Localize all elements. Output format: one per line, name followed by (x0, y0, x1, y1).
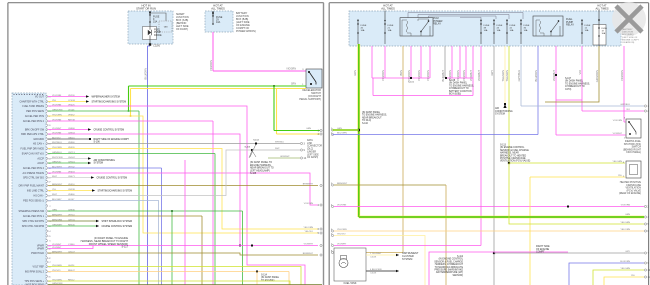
svg-text:IND RPM SGNL 2: IND RPM SGNL 2 (25, 271, 45, 274)
page2 left pin VIO/ORN 4 (331, 205, 333, 207)
wire YEL/GRN chartreuse vertical (508, 46, 510, 163)
wire GRN vertical drop at x274 (273, 86, 275, 131)
relay bus wires to fuses (408, 13, 523, 20)
svg-text:GRN: GRN (306, 128, 311, 130)
svg-text:WHT: WHT (52, 194, 58, 196)
svg-text:VE230: VE230 (68, 95, 75, 97)
svg-text:GRY: GRY (490, 70, 494, 76)
fuse 43 page2 (493, 23, 494, 24)
svg-text:VIO/WHT: VIO/WHT (52, 128, 62, 130)
SJB feed stub (149, 11, 151, 14)
svg-text:VIO/ORN: VIO/ORN (209, 60, 213, 71)
svg-text:GRN/ORN: GRN/ORN (52, 109, 63, 111)
svg-text:ENGINE HARNESS,: ENGINE HARNESS, (250, 164, 272, 167)
svg-text:AT BREAKOUT TO: AT BREAKOUT TO (565, 85, 585, 88)
svg-text:YEL/GRN: YEL/GRN (620, 222, 630, 224)
wire VIO relay pin down 1 (410, 46, 412, 78)
svg-text:(IN ENGINE CONTROL: (IN ENGINE CONTROL (439, 259, 464, 261)
svg-text:RE506: RE506 (68, 224, 75, 226)
svg-text:EVAP CAN VNT VLV: EVAP CAN VNT VLV (22, 153, 45, 156)
svg-text:VIO/ORN: VIO/ORN (426, 70, 430, 81)
svg-text:VO OUT: VO OUT (35, 96, 45, 99)
svg-text:TO DLC): TO DLC) (362, 120, 371, 122)
svg-text:CO610: CO610 (68, 100, 76, 102)
svg-text:PEDAL SUPPORT): PEDAL SUPPORT) (299, 98, 321, 101)
svg-text:DRV PNP FUEL MAINT: DRV PNP FUEL MAINT (19, 185, 45, 188)
svg-text:(IN DASH PANEL: (IN DASH PANEL (449, 82, 468, 85)
fuse F9 (SJB) (149, 14, 150, 15)
svg-text:10A: 10A (510, 29, 514, 32)
wire GRN decel branch vertical x128.5 (128, 86, 130, 111)
wire GRY long vertical S-112 (493, 46, 495, 285)
svg-text:10A: 10A (497, 29, 501, 32)
svg-text:C4048: C4048 (370, 257, 377, 259)
svg-text:DIODE: DIODE (154, 34, 162, 37)
fuse 21 page2 (384, 23, 385, 24)
svg-text:VOLT REF: VOLT REF (33, 266, 45, 269)
svg-text:(IN ENGINE CONTROL: (IN ENGINE CONTROL (500, 147, 525, 149)
svg-text:YEL/GRN: YEL/GRN (52, 279, 62, 281)
svg-text:C4048: C4048 (370, 273, 377, 275)
fuse F29 (BJB) (212, 15, 213, 16)
svg-text:GROUND: GROUND (33, 138, 44, 141)
svg-text:VIO/WHT: VIO/WHT (613, 133, 623, 135)
svg-text:AT BREAKOUT TO: AT BREAKOUT TO (449, 87, 469, 90)
svg-text:VIO/ORN: VIO/ORN (286, 69, 296, 71)
wire VIO long vertical x481 (480, 46, 482, 246)
svg-text:35: 35 (48, 276, 50, 278)
svg-text:PRESSURE (MAP)/INTAKE: PRESSURE (MAP)/INTAKE (434, 269, 463, 272)
svg-text:NEAR BREAKOUT TO: NEAR BREAKOUT TO (250, 167, 274, 170)
wire VIO long vertical x473 (472, 46, 474, 96)
svg-text:STEERING PRESS SW: STEERING PRESS SW (18, 210, 44, 213)
inertia fuel shutoff IFS switch box (626, 119, 641, 138)
svg-text:BRN: BRN (399, 70, 403, 76)
svg-text:VE966: VE966 (68, 142, 75, 144)
wire YEL bottom right corner (604, 277, 644, 285)
svg-text:A/C PRESS TRANS: A/C PRESS TRANS (23, 172, 45, 175)
svg-text:GRN: GRN (291, 84, 296, 86)
svg-text:VIO/ORN: VIO/ORN (456, 70, 460, 81)
svg-text:BLU/WHT: BLU/WHT (52, 166, 63, 168)
wire GRN decel pin 1 horizontal (273, 85, 275, 87)
svg-text:BRN/WHT: BRN/WHT (52, 251, 63, 253)
wire BRN tan long vertical (402, 46, 404, 252)
svg-text:BLU/ORN: BLU/ORN (144, 68, 148, 80)
fuse 12 page2 (581, 23, 582, 24)
wire BLU/ORN vertical from fuse (537, 46, 539, 135)
svg-text:ALL TIMES: ALL TIMES (211, 7, 225, 11)
svg-text:OF DASH): OF DASH) (176, 28, 188, 31)
splice S-110 note (358, 129, 360, 131)
svg-text:GRN/ORN: GRN/ORN (595, 70, 599, 82)
wire GRN to page edge pin 1 (274, 130, 320, 132)
svg-text:SENSOR): SENSOR) (453, 275, 464, 277)
wire VIO relay pin down 3 (429, 46, 431, 78)
svg-text:TO MANIFOLD ABSOLUTE: TO MANIFOLD ABSOLUTE (435, 266, 464, 269)
svg-text:VIO/ORN: VIO/ORN (52, 132, 62, 134)
svg-text:CH501: CH501 (68, 161, 76, 163)
fuel pump symbol (339, 259, 348, 268)
svg-text:10A: 10A (388, 29, 392, 32)
svg-text:WHT/ORN: WHT/ORN (52, 157, 63, 159)
PCM pin ticks top (14, 94, 15, 95)
svg-text:CRUISE CONTROL SYSTEM: CRUISE CONTROL SYSTEM (102, 226, 133, 228)
wire YEL to PCV pin 1 (530, 176, 625, 178)
svg-text:YEL/GRN: YEL/GRN (620, 268, 630, 270)
svg-text:YEL/VIO: YEL/VIO (304, 231, 313, 233)
svg-text:VIO/WHT: VIO/WHT (469, 70, 473, 82)
svg-text:GRY/BLU: GRY/BLU (620, 104, 630, 106)
wire VIO fuse21 down to splice bus (384, 46, 386, 78)
SJB tab sub-box (dashed) (159, 21, 172, 32)
BJB feed stub (212, 11, 214, 16)
wire YEL vertical drop at x276 (276, 89, 278, 135)
svg-text:BRN/WHT: BRN/WHT (52, 214, 63, 216)
svg-text:YEL/ORN: YEL/ORN (52, 147, 62, 149)
svg-text:(IN DASH PANEL: (IN DASH PANEL (362, 111, 381, 114)
fuel pump relay coil (539, 21, 540, 32)
svg-text:SENSOR & FUEL CHARGE: SENSOR & FUEL CHARGE (500, 149, 529, 152)
svg-text:(IN DASH PANEL TO: (IN DASH PANEL TO (250, 161, 272, 164)
svg-text:10A: 10A (524, 29, 528, 32)
svg-text:CE731: CE731 (68, 219, 75, 221)
svg-text:(DLC): (DLC) (307, 149, 313, 151)
svg-text:CRUISE CONTROL SYSTEM: CRUISE CONTROL SYSTEM (97, 178, 128, 180)
svg-text:VIO/WHT: VIO/WHT (477, 70, 481, 82)
svg-text:GRN/WHT: GRN/WHT (280, 156, 290, 158)
svg-text:(IN DASH PANEL: (IN DASH PANEL (261, 276, 280, 279)
svg-text:TO ENGINE HARNESS,: TO ENGINE HARNESS, (449, 84, 474, 87)
PCM empty pin stubs (46, 124, 47, 127)
svg-text:POSITIVE CRANKCASE: POSITIVE CRANKCASE (500, 157, 526, 160)
wire VIO/ORN to decelerator switch pin 3 (213, 70, 306, 72)
svg-text:GE115: GE115 (68, 137, 75, 139)
svg-text:BRK ON/OFF SW: BRK ON/OFF SW (25, 129, 45, 132)
smart junction box SJB (dashed) (128, 11, 173, 44)
DLC pins (300, 142, 302, 144)
svg-text:BATTERY JUNCTION: BATTERY JUNCTION (449, 90, 472, 93)
svg-text:YEL/VIO: YEL/VIO (52, 270, 61, 272)
left page border frame (8, 2, 324, 4)
svg-text:WHT: WHT (52, 176, 58, 178)
wire YEL vertical x530 (529, 177, 531, 285)
svg-text:LEFT HEADLAMP): LEFT HEADLAMP) (250, 169, 270, 172)
svg-text:BLK/VIO: BLK/VIO (52, 137, 61, 139)
decelerator switch contacts (308, 71, 310, 73)
svg-text:BRN/WHT: BRN/WHT (52, 184, 63, 186)
svg-text:BLU/ORN: BLU/ORN (620, 261, 630, 263)
svg-text:S-107: S-107 (565, 78, 572, 80)
twisted pair symbol (249, 144, 256, 158)
svg-text:VE425: VE425 (68, 104, 75, 106)
page2 left pin YEL/VIO 5 (331, 234, 333, 236)
decelerator switch box (306, 69, 322, 88)
svg-text:VENTILATION (PCV) VALVE): VENTILATION (PCV) VALVE) (500, 160, 530, 163)
svg-text:ACCEL PED POS 2: ACCEL PED POS 2 (23, 120, 45, 123)
svg-text:ALL TIMES: ALL TIMES (381, 7, 395, 11)
svg-text:YEL/ORN: YEL/ORN (620, 229, 630, 231)
fuse F19 (598, 27, 599, 28)
wire BLU/ORN from SJB fuse 9 (vertical) (147, 46, 149, 285)
svg-text:VIO/ORN: VIO/ORN (52, 95, 62, 97)
svg-text:ACCP: ACCP (37, 158, 44, 161)
wire GRN thick page2 vertical (357, 44, 360, 217)
svg-text:GRN: GRN (52, 209, 57, 211)
PCM power relay contact (420, 31, 421, 32)
wire VIO splice drop 5 (459, 46, 461, 78)
wire VIO vertical x582 (581, 46, 583, 111)
wire VIO splice drop 6 (465, 46, 467, 78)
DLC splice dot S-103 (251, 149, 253, 151)
svg-text:VIO/WHT: VIO/WHT (304, 243, 314, 245)
battery junction box BJB page1 (dashed) (205, 11, 233, 32)
svg-text:C2280: C2280 (153, 45, 161, 48)
fuel pump diode box (143, 27, 157, 40)
svg-text:SPD CTRL SW RPM: SPD CTRL SW RPM (22, 225, 44, 228)
svg-text:VIO/ORN: VIO/ORN (621, 204, 631, 206)
svg-text:10A: 10A (216, 21, 221, 24)
page2 left pin GRN 1 (331, 129, 333, 131)
fuel pump relay box (533, 16, 563, 36)
wire GRY/BLU vertical from box (520, 46, 522, 106)
svg-text:HS CAN -: HS CAN - (34, 195, 45, 198)
wire VIO/ORN lower loop (429, 252, 568, 285)
page2 left pin BLU/ORN 2 (331, 133, 333, 135)
svg-text:SYSTEM: SYSTEM (402, 258, 412, 261)
svg-text:SPD CTRL SW SIG: SPD CTRL SW SIG (23, 177, 44, 180)
svg-text:OF DASH): OF DASH) (307, 156, 318, 159)
svg-text:CE107: CE107 (68, 251, 75, 253)
svg-text:S-104: S-104 (253, 140, 259, 142)
svg-text:GRY: GRY (625, 251, 630, 253)
svg-text:RE447: RE447 (68, 270, 75, 272)
svg-text:S-108: S-108 (449, 80, 456, 82)
svg-text:6: 6 (49, 241, 50, 243)
svg-text:ACCEL PED POS 2: ACCEL PED POS 2 (23, 167, 45, 170)
svg-text:C270): C270) (565, 89, 571, 91)
fuse 21 feed from title (384, 11, 386, 20)
page2 left pin BRN/WHT 8 (331, 251, 333, 253)
svg-text:SHIFT INTERLOCK SYSTEM: SHIFT INTERLOCK SYSTEM (102, 221, 133, 223)
DLC splice dot S-104 (255, 143, 257, 145)
wire YEL to page edge pin 2 (277, 133, 321, 135)
wire GRN thick horizontal to right edge (359, 216, 644, 219)
wire VIO/WHT vertical x556 (555, 46, 557, 135)
svg-text:BLU/GRY: BLU/GRY (52, 199, 62, 201)
svg-text:GRN/BLU: GRN/BLU (52, 152, 62, 154)
svg-text:SYSTEM: SYSTEM (94, 163, 104, 165)
svg-text:HARNESS, NEAR: HARNESS, NEAR (500, 152, 519, 155)
svg-text:VE633: VE633 (68, 171, 75, 173)
wire YEL/WHT fuel gauge (366, 254, 396, 256)
fuse 42 page2 (506, 23, 507, 24)
svg-text:GRN: GRN (625, 214, 630, 216)
SJB internal bus wire (149, 14, 151, 15)
svg-text:YEL/ORN: YEL/ORN (303, 227, 313, 229)
fuse 45 page2 (357, 23, 358, 24)
svg-text:GRN/VIO: GRN/VIO (52, 161, 62, 163)
wire YEL decel branch vertical x130.5 (130, 89, 132, 117)
svg-text:RE112: RE112 (68, 279, 75, 281)
svg-text:ON APRON): ON APRON) (622, 41, 635, 44)
svg-text:PED POS SENS (-): PED POS SENS (-) (23, 200, 44, 203)
splice S-113 dot (508, 162, 510, 164)
svg-text:ACCEL PED POS: ACCEL PED POS (25, 115, 45, 118)
svg-text:BLK/WHT: BLK/WHT (441, 70, 445, 82)
DLC stub GRN/WHT (268, 157, 300, 159)
svg-text:VIO/ORN: VIO/ORN (613, 120, 623, 122)
svg-text:LEFT SIDE: LEFT SIDE (307, 154, 319, 156)
wire YEL/GRN bottom right corner (593, 270, 644, 285)
wire BLK/WHT gray vertical (444, 46, 446, 78)
wire VIO relay pin down 2 (420, 46, 422, 78)
svg-text:VE352: VE352 (68, 114, 75, 116)
svg-text:CRUISE CONTROL SYSTEM: CRUISE CONTROL SYSTEM (94, 130, 125, 132)
svg-text:VIO/WHT: VIO/WHT (52, 244, 62, 246)
svg-text:(IN DASH PANEL: (IN DASH PANEL (565, 80, 584, 83)
svg-text:S-113: S-113 (500, 145, 507, 147)
wire VIO splice stub 556-582 (556, 99, 582, 101)
svg-text:10A: 10A (602, 32, 606, 35)
SJB output pin C2280 (149, 43, 151, 45)
svg-text:S-112: S-112 (457, 256, 464, 258)
svg-text:15A: 15A (153, 21, 158, 24)
svg-text:29: 29 (48, 236, 50, 238)
svg-text:VIO: VIO (626, 109, 630, 111)
svg-text:WIPER/WASHER SYSTEM: WIPER/WASHER SYSTEM (92, 96, 120, 99)
svg-text:ACCP: ACCP (37, 162, 44, 165)
svg-text:S-103: S-103 (244, 147, 250, 149)
svg-text:S-117: S-117 (122, 246, 129, 249)
svg-text:37: 37 (48, 182, 50, 184)
PCM power relay box (400, 18, 433, 36)
svg-text:CE866: CE866 (68, 128, 75, 130)
svg-text:CE836: CE836 (68, 209, 75, 211)
svg-text:VIO/ORN: VIO/ORN (304, 203, 314, 205)
svg-text:CE338: CE338 (68, 189, 75, 191)
wire YEL decel companion horizontal (131, 88, 307, 90)
wire VIO 2 to edge (582, 110, 644, 112)
svg-text:VE732: VE732 (68, 166, 75, 168)
svg-text:42: 42 (48, 258, 50, 260)
splice bus VIO y78 right (445, 77, 473, 79)
svg-text:SPD CTRL SW RTN: SPD CTRL SW RTN (22, 220, 44, 223)
svg-text:KICK PANEL): KICK PANEL) (626, 151, 641, 154)
svg-text:BRN/WHT: BRN/WHT (303, 184, 314, 186)
svg-text:STARTING/CHARGING SYSTEM: STARTING/CHARGING SYSTEM (98, 190, 133, 193)
svg-text:BRN/GRN: BRN/GRN (52, 219, 63, 221)
wire VIO/ORN to IFS pin 3 (624, 121, 626, 123)
svg-text:LE107: LE107 (68, 199, 75, 201)
svg-text:FUEL TANK PRESS: FUEL TANK PRESS (22, 105, 44, 108)
svg-text:CE471: CE471 (68, 176, 75, 178)
svg-text:VE316: VE316 (68, 184, 75, 186)
svg-text:VIO/ORN: VIO/ORN (381, 70, 385, 81)
svg-text:VIO/WHT: VIO/WHT (52, 247, 62, 249)
svg-text:S-101: S-101 (408, 82, 415, 84)
svg-text:AIR CONDITIONING: AIR CONDITIONING (94, 159, 116, 162)
svg-text:CE713: CE713 (68, 152, 75, 154)
svg-text:S-105: S-105 (250, 173, 257, 175)
svg-text:CH502: CH502 (68, 157, 76, 159)
svg-text:NEAR BREAKOUT: NEAR BREAKOUT (362, 116, 382, 119)
svg-text:1 YEL/WHT: 1 YEL/WHT (370, 253, 382, 255)
svg-text:DATA: DATA (307, 139, 313, 142)
svg-text:10A: 10A (361, 29, 365, 32)
fuel tank box (334, 248, 366, 281)
battery junction box page2 (dashed) (349, 11, 621, 46)
DLC stub 14 (252, 149, 300, 151)
svg-text:BLU/ORN: BLU/ORN (534, 70, 538, 82)
svg-text:LINK: LINK (307, 143, 313, 145)
svg-text:START OR RUN: START OR RUN (136, 7, 156, 11)
svg-text:ACCEL PED POS 1: ACCEL PED POS 1 (23, 215, 45, 218)
fuel pump relay contact (550, 31, 551, 32)
wire YEL/GRN pale vertical (504, 46, 506, 104)
wire BLU/ORN bottom right corner (569, 263, 644, 285)
svg-text:VIO/ORN: VIO/ORN (407, 70, 411, 81)
wire YEL/GRN corner to right edge (509, 163, 644, 224)
svg-text:VIO/GRN: VIO/GRN (52, 171, 62, 173)
svg-text:VIO/ORN: VIO/ORN (620, 70, 624, 81)
PCM power relay coil (406, 21, 407, 32)
svg-text:STARTING/CHARGING SYSTEM: STARTING/CHARGING SYSTEM (92, 101, 127, 104)
svg-text:WHT/BLU: WHT/BLU (275, 142, 285, 144)
svg-text:GRN/WHT: GRN/WHT (52, 224, 63, 226)
svg-text:4 BLK/ORN: 4 BLK/ORN (370, 269, 382, 271)
page2 left pin BRN/WHT 5 (331, 184, 333, 186)
wire GRY/BLU horizontal to edge (521, 105, 644, 107)
svg-text:YEL/GRN: YEL/GRN (505, 70, 509, 82)
svg-text:YEL/ORN: YEL/ORN (52, 114, 62, 116)
svg-text:PED POS SENS: PED POS SENS (26, 110, 44, 113)
svg-text:CHARTER WTH CTRL: CHARTER WTH CTRL (19, 101, 44, 104)
svg-text:VIO/ORN: VIO/ORN (52, 104, 62, 106)
svg-text:(REAR OF ENGINE): (REAR OF ENGINE) (619, 192, 641, 195)
svg-text:10A: 10A (484, 29, 488, 32)
svg-text:POWER APRON): POWER APRON) (236, 30, 256, 33)
splice bus VIO y78 left (372, 77, 430, 79)
svg-text:RIGHT SIDE OF ENGINE COMPT: RIGHT SIDE OF ENGINE COMPT (94, 139, 130, 141)
page2 left pin YEL/ORN 6 (331, 230, 333, 232)
wire VIO/ORN to IFS3 vertical (623, 46, 625, 122)
svg-text:VIO: VIO (578, 70, 582, 74)
svg-text:GRN: GRN (353, 70, 357, 76)
svg-text:WHT/BLU: WHT/BLU (52, 142, 62, 144)
wire GRY splice S-112 (493, 252, 495, 254)
PCM connector box (dashed) (12, 93, 46, 285)
svg-text:HS CAN +: HS CAN + (33, 143, 45, 146)
page2 left pin VIO/WHT 7 (331, 244, 333, 246)
svg-text:VE866: VE866 (68, 194, 75, 196)
BJB watermark circle X (612, 2, 646, 36)
svg-text:10A: 10A (585, 29, 589, 32)
splice S-101 dot (410, 77, 412, 79)
svg-text:YEL/GRN: YEL/GRN (612, 161, 622, 163)
fuse 19 white sub-box (593, 25, 606, 46)
svg-text:S-110: S-110 (362, 123, 369, 125)
svg-text:IND LINE CTRL: IND LINE CTRL (27, 190, 45, 193)
svg-text:TO ENGINE HARNESS,: TO ENGINE HARNESS, (565, 82, 590, 85)
svg-text:FUEL PNP DRV MOD: FUEL PNP DRV MOD (21, 148, 45, 151)
svg-text:VIO/ORN: VIO/ORN (52, 119, 62, 121)
wire VIO/WHT to IFS pin 1 (556, 134, 626, 136)
svg-text:14: 14 (48, 231, 50, 233)
svg-text:2: 2 (49, 206, 50, 208)
svg-text:LE424: LE424 (68, 265, 75, 267)
svg-text:ALL TIMES: ALL TIMES (595, 7, 608, 11)
